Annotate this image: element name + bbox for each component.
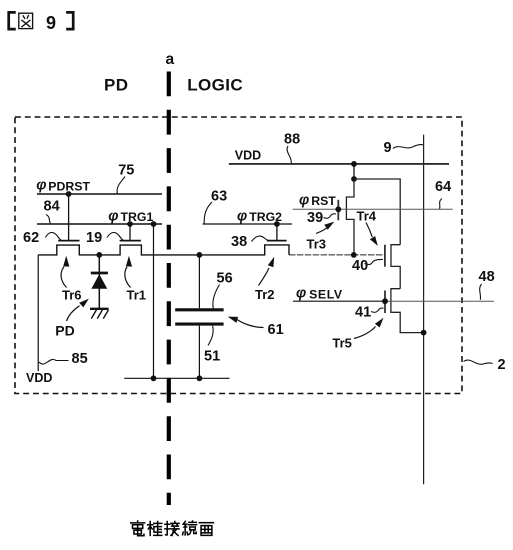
capacitor bottom lead [198, 326, 200, 379]
wire VDD top rail 88 [229, 163, 449, 165]
transistor Tr5 channel [391, 289, 424, 333]
wire VDD left feed (85) [37, 255, 39, 371]
svg-text:2: 2 [498, 357, 506, 373]
svg-text:62: 62 [23, 230, 39, 246]
svg-text:75: 75 [118, 162, 134, 178]
node dot Tr3/Tr4 drain [351, 176, 357, 182]
lead 9 [393, 145, 423, 149]
arrow Tr3 [316, 228, 327, 234]
svg-text:φSELV: φSELV [296, 286, 343, 302]
node dot floating diffusion 40 [351, 252, 357, 258]
svg-text:19: 19 [86, 230, 102, 246]
svg-text:41: 41 [355, 304, 371, 320]
arrow Tr2 [259, 268, 270, 286]
lead 48 [480, 284, 482, 300]
kanji DEN [131, 521, 145, 536]
svg-text:VDD: VDD [235, 149, 261, 163]
wire Tr1 gate lead [129, 224, 131, 241]
capacitor C top plate 56 [175, 308, 223, 311]
svg-text:PD: PD [104, 76, 128, 95]
boundary a : thick dashed divider [167, 72, 171, 506]
node dot Tr5 source to column [421, 330, 427, 336]
lead 62 [45, 232, 61, 240]
svg-text:56: 56 [217, 270, 233, 286]
node dot PD junction [96, 252, 102, 258]
lead 85 [39, 359, 69, 364]
svg-text:40: 40 [352, 258, 368, 274]
wire phi-SELV line [293, 300, 385, 302]
svg-text:φPDRST: φPDRST [36, 178, 90, 194]
arrow 61 [237, 320, 264, 328]
svg-text:Tr5: Tr5 [332, 336, 352, 351]
wire SELV extension 48 [385, 300, 494, 302]
wire Tr4 drain branch [354, 179, 400, 245]
svg-text:63: 63 [211, 188, 227, 204]
svg-text:Tr1: Tr1 [127, 287, 147, 302]
kanji ZU (figure) [19, 13, 33, 28]
wire phi-PDRST line [37, 193, 162, 195]
ground bar [90, 308, 109, 310]
svg-text:48: 48 [479, 269, 495, 285]
svg-text:Tr2: Tr2 [255, 287, 275, 302]
svg-text:64: 64 [435, 179, 451, 195]
svg-text:9: 9 [384, 140, 392, 156]
kanji SETSU [165, 521, 179, 535]
node dot on TRG1 at column wire [151, 221, 157, 227]
lead 41 [371, 308, 384, 312]
svg-text:9: 9 [46, 13, 56, 33]
lead 19 [107, 232, 123, 240]
caption DENKYOKU-SETSUZOKU-MEN (electrode connection surface) [131, 521, 214, 536]
svg-text:Tr6: Tr6 [62, 287, 82, 302]
photodiode PD cathode bar [91, 272, 108, 275]
wire floating node row (thin) to Tr4 gate [289, 254, 385, 256]
wire phi-TRG1 line [37, 223, 162, 225]
kanji ZOKU [183, 521, 197, 535]
kanji KYOKU [148, 521, 162, 535]
lead 38 [252, 236, 270, 241]
title bracket right [68, 12, 74, 29]
capacitor C bottom plate 51 [175, 323, 223, 326]
chip outline 2 : dashed box [15, 117, 462, 394]
lead 51 [208, 326, 213, 346]
wire vertical column line 9 [423, 135, 425, 485]
node dot SELV gate [382, 298, 388, 304]
wire main diffusion row with Tr6, Tr1, Tr2 channel bumps [38, 245, 289, 255]
lead 2 [464, 360, 493, 364]
node dot on TRG1 at Tr1 gate [127, 221, 133, 227]
svg-text:Tr3: Tr3 [307, 237, 327, 252]
lead 75 [117, 177, 125, 194]
lead 84 [46, 215, 51, 224]
lead 39 [324, 214, 337, 219]
ground hatches [91, 310, 108, 319]
svg-text:VDD: VDD [26, 371, 52, 385]
arrow PD [67, 306, 80, 321]
node dot TRG2 at Tr2 gate [274, 221, 280, 227]
photodiode PD stem [98, 255, 100, 309]
node dot VDD tap [351, 161, 357, 167]
capacitor top lead [198, 255, 200, 308]
bottom rail wire [124, 377, 229, 379]
transistor Tr3 gate bar [337, 200, 339, 221]
title bracket left [9, 12, 15, 29]
transistor Tr3 channel [346, 179, 354, 255]
arrow Tr1 [125, 267, 131, 288]
lead 88 [287, 146, 291, 163]
svg-text:38: 38 [231, 234, 247, 250]
node dot on PDRST at Tr6 gate [66, 191, 72, 197]
transistor Tr2 gate bar [267, 240, 287, 242]
svg-text:85: 85 [72, 351, 88, 367]
arrow Tr5 [354, 327, 376, 339]
wire VDD tap stub [353, 164, 355, 179]
svg-text:39: 39 [307, 210, 323, 226]
lead 64 [440, 199, 443, 209]
svg-text:φRST: φRST [299, 192, 336, 208]
lead 63 [204, 202, 212, 224]
transistor Tr4 channel [391, 245, 400, 289]
svg-text:84: 84 [44, 199, 60, 215]
wire column from TRG1 down to bottom rail [153, 224, 155, 378]
svg-text:Tr4: Tr4 [357, 209, 377, 224]
transistor Tr6 gate bar [58, 240, 79, 242]
lead 40 [365, 259, 384, 264]
wire Tr2 gate lead [276, 224, 278, 241]
svg-text:61: 61 [268, 322, 284, 338]
wire Tr6 gate lead [68, 194, 70, 241]
photodiode PD anode triangle [92, 275, 106, 288]
svg-text:51: 51 [204, 349, 220, 365]
wire phi-RST line 64 [293, 208, 453, 210]
node dot capacitor top [197, 252, 203, 258]
transistor Tr5 gate bar [384, 291, 386, 314]
svg-text:a: a [166, 51, 175, 68]
wire phi-TRG2 line [203, 223, 293, 225]
node dot rail-column [151, 375, 157, 381]
svg-text:LOGIC: LOGIC [187, 76, 243, 95]
node dot rail-capacitor [197, 375, 203, 381]
arrow Tr4 [366, 223, 372, 238]
transistor Tr4 gate bar [384, 245, 386, 267]
node dot RST gate [335, 206, 341, 212]
arrow Tr6 [61, 267, 66, 288]
lead 56 [213, 285, 220, 309]
kanji MEN [199, 523, 213, 536]
svg-text:PD: PD [55, 322, 74, 338]
transistor Tr1 gate bar [120, 240, 141, 242]
svg-text:88: 88 [284, 131, 300, 147]
